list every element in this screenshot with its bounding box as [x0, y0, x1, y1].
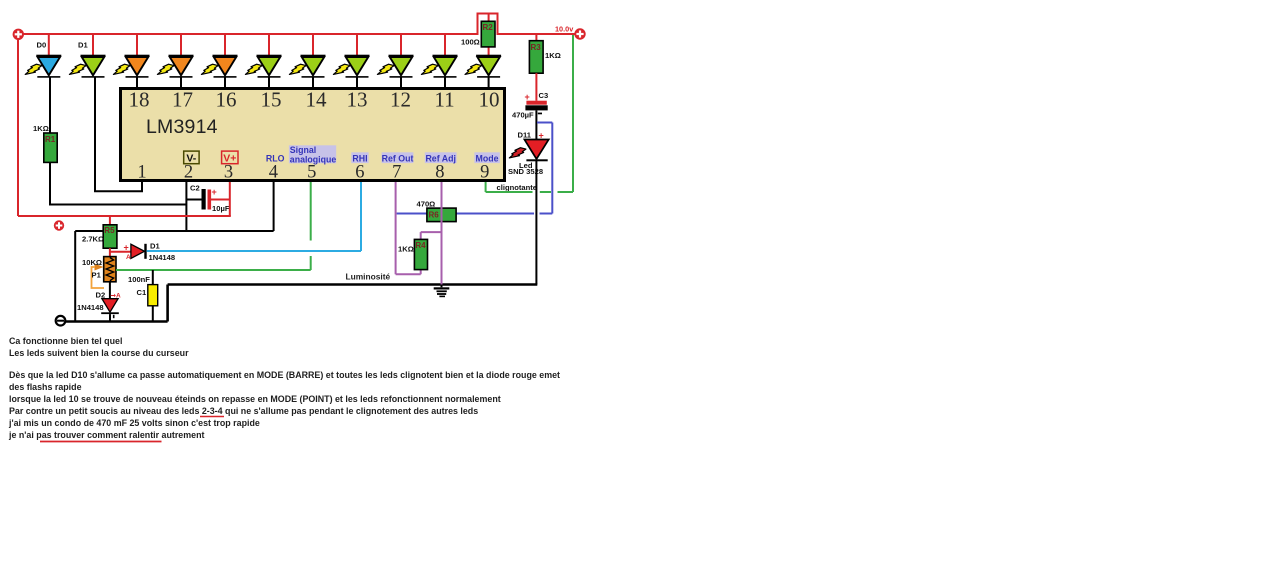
- svg-text:16: 16: [216, 88, 237, 112]
- svg-text:9: 9: [480, 162, 489, 182]
- resistor R4: [414, 239, 427, 269]
- LED 6 (yellow-green): [245, 55, 281, 78]
- pin label V+ box: [222, 151, 238, 165]
- svg-text:V+: V+: [223, 153, 236, 165]
- svg-text:A: A: [126, 254, 131, 261]
- svg-text:Ref Adj: Ref Adj: [425, 154, 455, 164]
- svg-text:j'ai mis un condo de 470 mF 25: j'ai mis un condo de 470 mF 25 volts sin…: [8, 418, 260, 428]
- resistor R6: [427, 208, 456, 222]
- wire: R3 to C3 (red): [535, 73, 537, 101]
- pin numbers bottom row: [137, 162, 489, 182]
- P1 wiper link (orange): [92, 267, 105, 288]
- wire: R2 leads (red): [488, 14, 490, 56]
- svg-text:je n'ai pas trouver comment ra: je n'ai pas trouver comment ralentir aut…: [8, 430, 204, 440]
- LED 3 (orange): [113, 55, 149, 78]
- svg-text:12: 12: [390, 88, 411, 112]
- svg-text:SND 3528: SND 3528: [508, 167, 543, 176]
- svg-text:10.0v: 10.0v: [555, 25, 574, 34]
- svg-text:D1: D1: [150, 242, 160, 251]
- svg-text:R2: R2: [483, 23, 494, 32]
- svg-text:11: 11: [434, 88, 454, 112]
- LED 10 (yellow-green): [421, 55, 457, 78]
- svg-text:6: 6: [355, 162, 364, 182]
- svg-text:1N4148: 1N4148: [77, 303, 104, 312]
- svg-text:5: 5: [307, 162, 316, 182]
- IC U1 LM3914 body: [121, 89, 505, 181]
- svg-text:4: 4: [269, 162, 278, 182]
- svg-text:2: 2: [184, 162, 193, 182]
- P1 wiper arrow: [95, 264, 104, 271]
- svg-text:C1: C1: [137, 288, 147, 297]
- resistor R2: [481, 21, 495, 47]
- wire: C1 top lead: [152, 270, 154, 285]
- wire: V- bus down to ground rail: [74, 231, 76, 322]
- wire: bottom ground rail: [65, 285, 537, 322]
- power terminal + (top-right): [574, 28, 585, 39]
- wire: R3 top lead: [535, 34, 537, 41]
- wire: mode green net pin9 to +V: [486, 35, 573, 192]
- svg-text:Dès que la led D10 s'allume ca: Dès que la led D10 s'allume ca passe aut…: [9, 370, 560, 380]
- red underline pas trouver comment ralentir: [40, 441, 162, 443]
- wire: pin 2 down: [185, 182, 187, 231]
- LED 5 (orange): [201, 55, 237, 78]
- wire: rail detour over R2: [478, 14, 498, 36]
- svg-text:100Ω: 100Ω: [461, 38, 480, 47]
- flash arrow D11 (red): [509, 148, 526, 158]
- svg-text:8: 8: [435, 162, 444, 182]
- svg-text:RLO: RLO: [266, 154, 285, 164]
- svg-text:14: 14: [306, 88, 328, 112]
- svg-text:D2: D2: [96, 291, 106, 300]
- svg-text:1KΩ: 1KΩ: [398, 245, 414, 254]
- LED 11 (yellow-green): [465, 55, 501, 78]
- svg-text:D11: D11: [518, 131, 532, 140]
- wire: D1 cathode to pin 6 (cyan): [147, 182, 361, 251]
- svg-text:V-: V-: [186, 153, 196, 165]
- wire: pin 3 down to +V rail2: [229, 182, 231, 216]
- IC top pin stubs: [137, 77, 489, 87]
- ground terminal minus circle: [56, 316, 66, 326]
- svg-text:+: +: [124, 243, 129, 253]
- svg-text:18: 18: [129, 88, 150, 112]
- svg-text:R3: R3: [531, 43, 542, 52]
- wire: R5 top lead: [109, 216, 111, 225]
- svg-text:470µF: 470µF: [512, 111, 534, 120]
- svg-text:470Ω: 470Ω: [417, 200, 436, 209]
- svg-text:10KΩ: 10KΩ: [82, 258, 102, 267]
- svg-text:D1: D1: [78, 41, 88, 50]
- LED 7 (yellow-green): [289, 55, 325, 78]
- svg-text:clignotante: clignotante: [497, 183, 538, 192]
- potentiometer P1: [104, 257, 116, 282]
- LED D11 (red, clignotante): [524, 140, 548, 162]
- LED 4 (orange): [157, 55, 193, 78]
- svg-text:LM3914: LM3914: [146, 116, 218, 138]
- resistor R3: [529, 41, 543, 73]
- pin label Signal analogique: [289, 145, 336, 165]
- wire: pin 8 link to R4 top: [421, 232, 442, 239]
- wire: +V left vertical: [17, 34, 19, 216]
- pin label V- box: [184, 151, 199, 165]
- svg-text:+: +: [525, 92, 530, 102]
- pin label Ref Out: [382, 152, 414, 163]
- wire: node to blue net (royal): [397, 123, 553, 214]
- svg-text:analogique: analogique: [290, 155, 337, 165]
- svg-text:Ref Out: Ref Out: [382, 154, 414, 164]
- resistor R1: [44, 133, 57, 162]
- wire: P1 bottom to D2: [109, 282, 111, 299]
- svg-text:Mode: Mode: [476, 154, 499, 164]
- wire: D0 cathode to R1: [49, 77, 51, 133]
- svg-text:P1: P1: [92, 271, 102, 280]
- svg-text:13: 13: [347, 88, 368, 112]
- svg-text:1: 1: [137, 162, 146, 182]
- svg-text:10: 10: [479, 88, 500, 112]
- svg-text:Par contre un petit soucis au: Par contre un petit soucis au niveau des…: [9, 406, 478, 416]
- svg-text:1KΩ: 1KΩ: [33, 124, 49, 133]
- wire: R1 down and right to V- node: [50, 162, 186, 204]
- diode D1 (1N4148): [131, 244, 147, 259]
- wire: pin 5 green to P1 wiper net: [116, 182, 311, 270]
- wire: LED anode stubs (red): [49, 34, 445, 55]
- resistor R5: [103, 225, 117, 248]
- svg-text:Signal: Signal: [290, 145, 316, 155]
- svg-text:+: +: [539, 131, 544, 141]
- svg-text:lorsque la led 10 se trouve de: lorsque la led 10 se trouve de nouveau é…: [9, 394, 501, 404]
- pin label Mode: [474, 152, 499, 163]
- svg-text:3: 3: [224, 162, 233, 182]
- LED D0 (blue): [25, 55, 61, 78]
- wire: pin 7 purple down and to R4 bottom: [396, 182, 421, 274]
- svg-text:10µF: 10µF: [212, 204, 230, 213]
- wire: +V rail2 horizontal: [18, 215, 231, 217]
- LED 9 (yellow-green): [377, 55, 413, 78]
- svg-text:Luminosité: Luminosité: [346, 272, 391, 282]
- svg-text:1N4148: 1N4148: [149, 253, 176, 262]
- capacitor C3: [525, 101, 547, 115]
- wire: D1 cathode to pin 1: [95, 77, 142, 191]
- svg-text:+: +: [212, 187, 217, 197]
- wire: C1 bottom lead: [152, 306, 154, 322]
- svg-text:des flashs rapide: des flashs rapide: [9, 382, 82, 392]
- wire: C3 to D11 (black): [535, 110, 537, 140]
- ground symbol: [434, 285, 450, 298]
- svg-text:C3: C3: [539, 91, 549, 100]
- svg-text:R4: R4: [415, 241, 426, 250]
- LED 8 (yellow-green): [333, 55, 369, 78]
- svg-text:17: 17: [172, 88, 193, 112]
- svg-text:Ca fonctionne bien tel quel: Ca fonctionne bien tel quel: [9, 336, 122, 346]
- svg-text:C2: C2: [190, 184, 200, 193]
- wire: V- bus horizontal to pin 4: [75, 230, 273, 232]
- wire: D2 cathode to ground rail: [109, 314, 111, 321]
- capacitor C2: [186, 189, 229, 210]
- svg-text:D0: D0: [37, 41, 47, 50]
- wire: +V top rail: [18, 33, 575, 35]
- svg-text:7: 7: [392, 162, 401, 182]
- svg-text:R1: R1: [45, 135, 56, 144]
- svg-text:2.7KΩ: 2.7KΩ: [82, 235, 104, 244]
- svg-text:100nF: 100nF: [128, 275, 150, 284]
- wire: D11 cathode to ground rail: [535, 161, 537, 285]
- svg-text:R6: R6: [429, 211, 440, 220]
- svg-text:R5: R5: [104, 226, 115, 235]
- svg-text:15: 15: [261, 88, 282, 112]
- svg-text:Les leds suivent bien la cours: Les leds suivent bien la course du curse…: [9, 348, 189, 358]
- pin label Ref Adj: [425, 152, 457, 163]
- capacitor C1: [148, 285, 158, 306]
- power terminal + (mid-left): [54, 220, 64, 230]
- pin label RHI: [351, 152, 368, 163]
- diode D2 (1N4148): [101, 299, 119, 318]
- svg-text:➞A: ➞A: [111, 293, 121, 300]
- wire: pin 8 purple down to ground: [441, 182, 443, 285]
- LED D1 (yellow-green): [69, 55, 105, 78]
- power terminal + (top-left): [13, 29, 24, 40]
- red underline 2-3-4: [200, 416, 224, 418]
- wire: R5 bottom to P1 and D1 anode: [110, 248, 131, 257]
- wire: pin 4 down: [273, 182, 275, 231]
- pin numbers top row: [129, 88, 500, 112]
- svg-text:RHI: RHI: [352, 154, 367, 164]
- svg-text:1KΩ: 1KΩ: [545, 51, 561, 60]
